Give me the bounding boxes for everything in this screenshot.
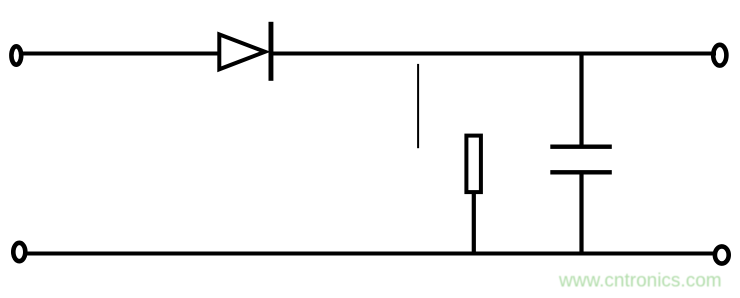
wire capacitor bottom lead — [579, 175, 583, 254]
wire top rail left segment — [21, 52, 219, 56]
diode D1 cathode bar — [269, 22, 274, 81]
terminal top-left — [11, 46, 21, 64]
terminal bottom-left — [13, 243, 25, 261]
diode D1 triangle — [219, 34, 265, 69]
terminal bottom-right — [715, 246, 729, 263]
wire top rail right segment — [273, 52, 716, 56]
terminal top-right — [713, 45, 726, 66]
svg-text:www.cntronics.com: www.cntronics.com — [558, 271, 722, 292]
wire resistor bottom lead — [472, 194, 476, 254]
resistor R1 body — [466, 136, 481, 193]
wire capacitor top lead — [579, 54, 583, 145]
capacitor C1 top plate — [550, 145, 612, 149]
wire bottom rail — [26, 252, 717, 256]
wire stub vertical (unconnected) — [417, 64, 419, 148]
capacitor C1 bottom plate — [550, 170, 612, 174]
